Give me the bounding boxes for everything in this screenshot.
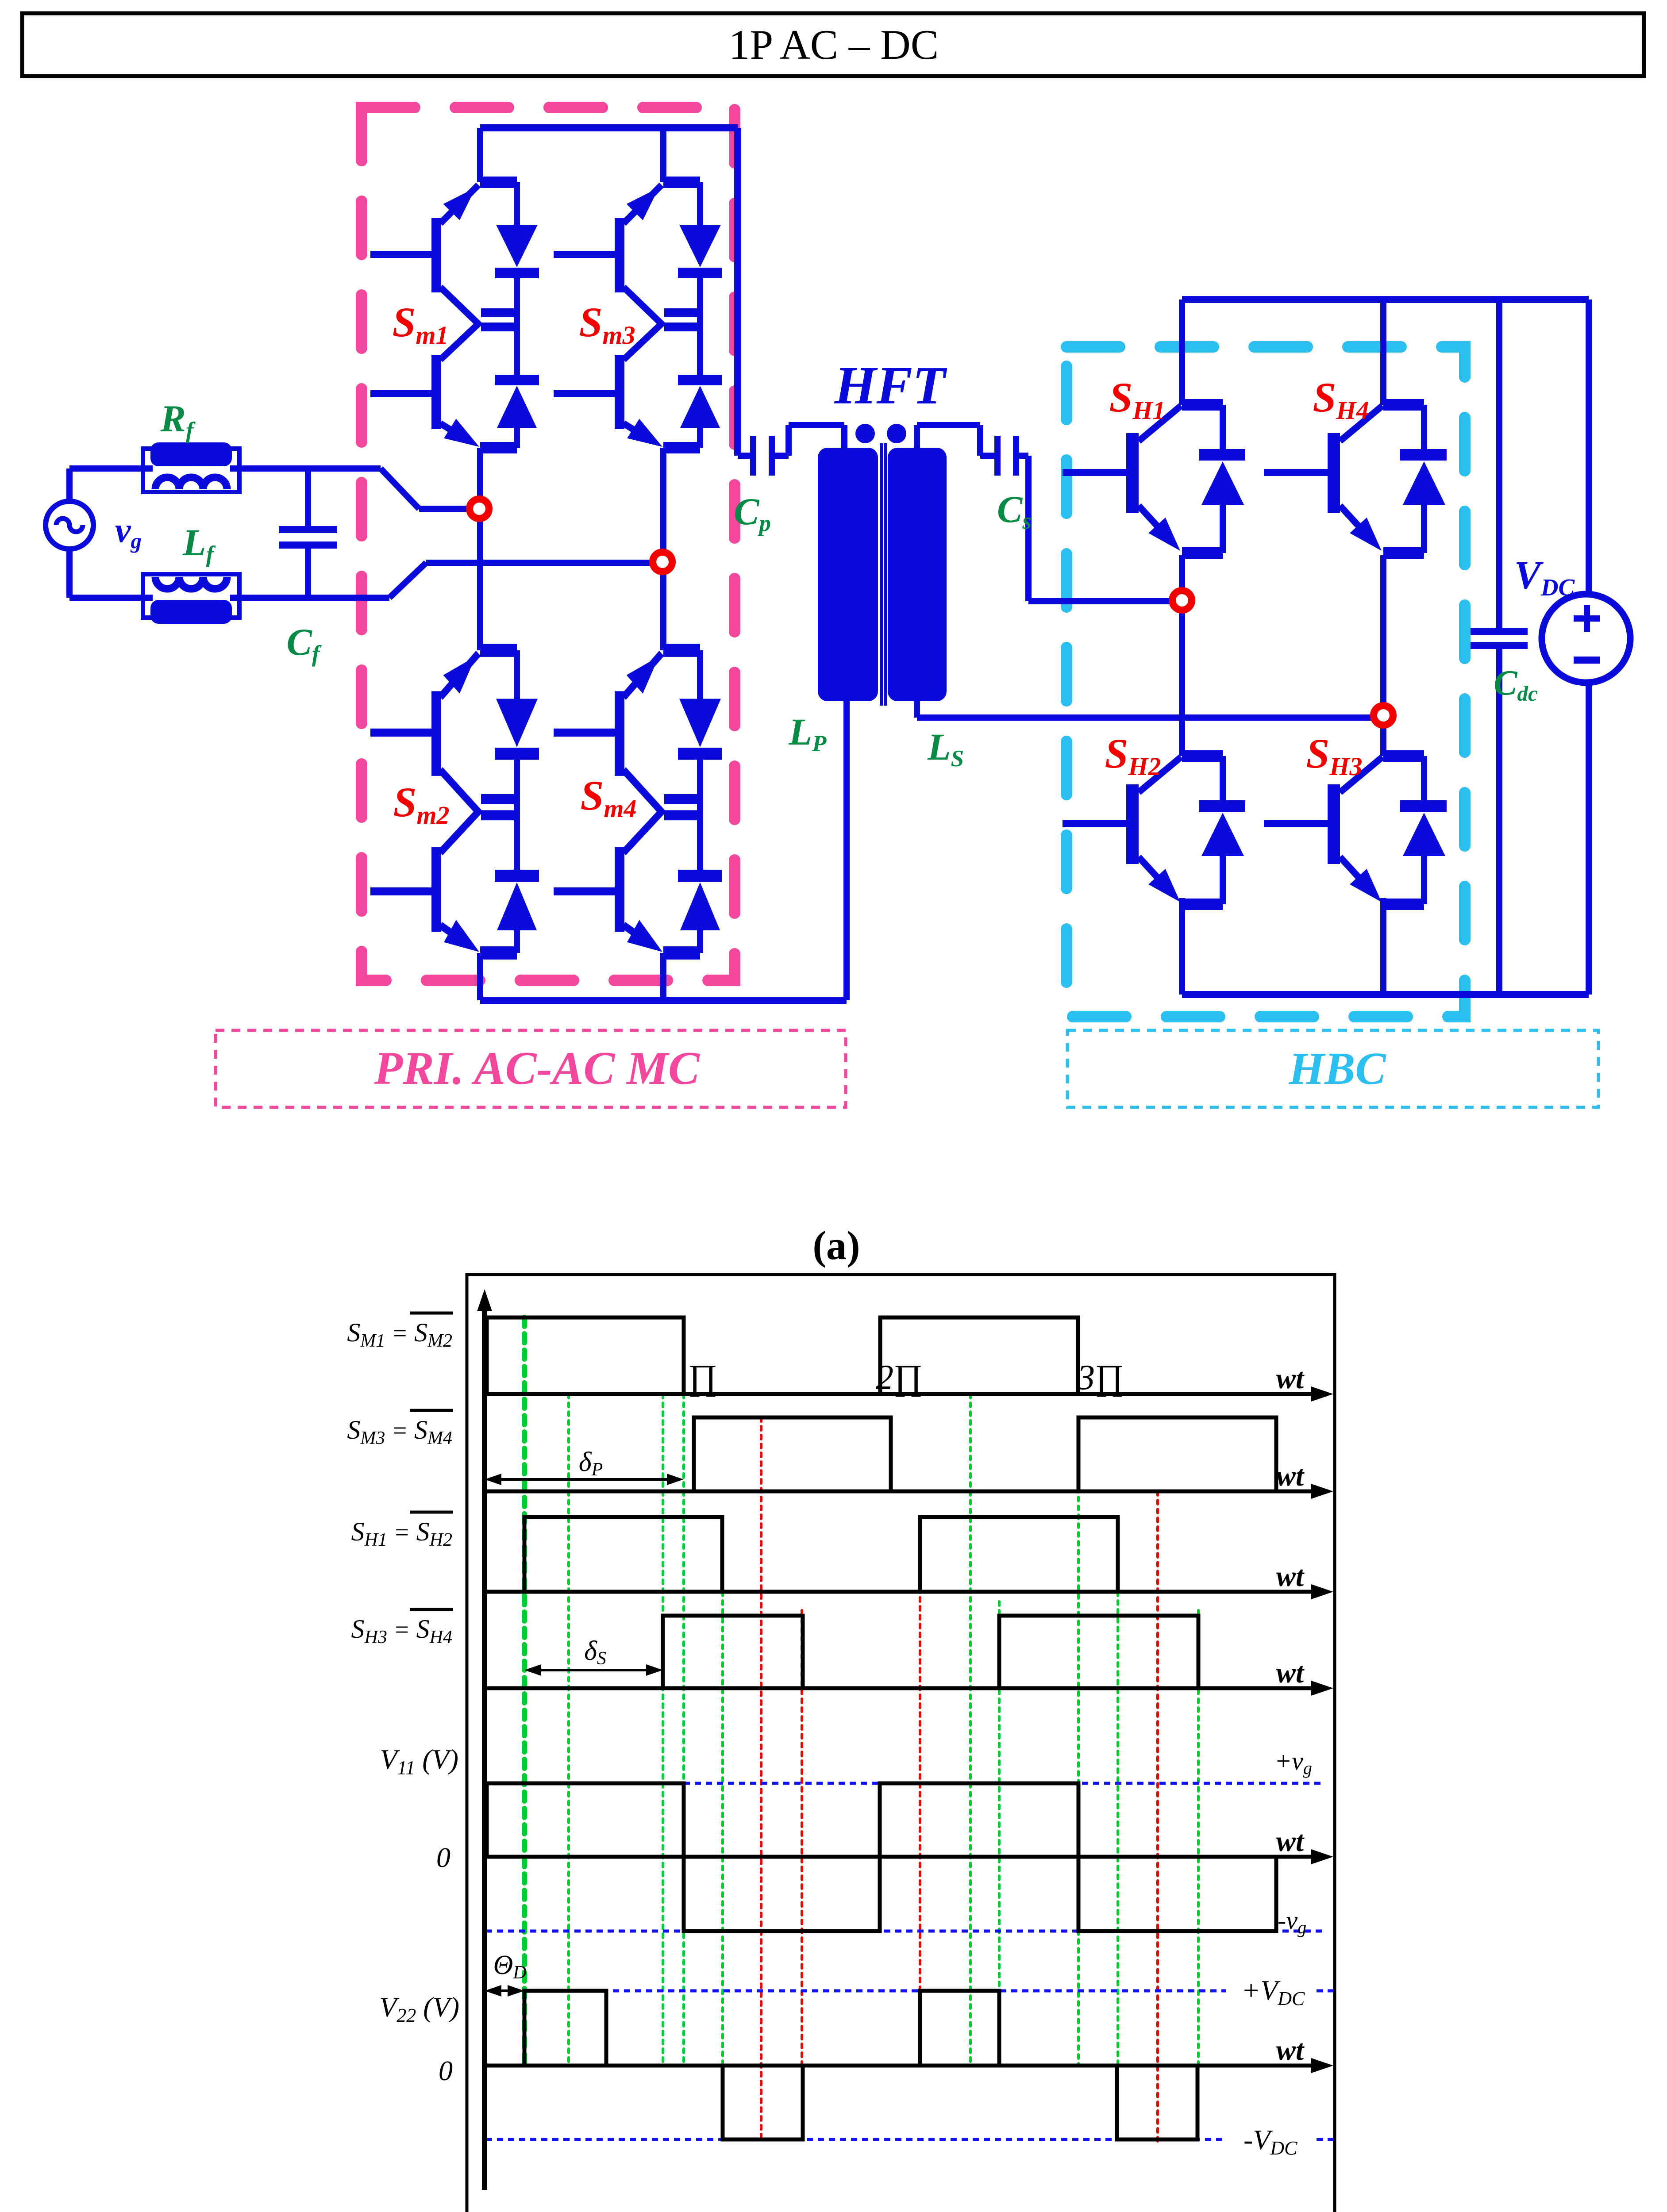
svg-text:vg: vg	[115, 511, 142, 553]
svg-text:+vg: +vg	[1274, 1747, 1312, 1778]
svg-text:SH3: SH3	[1306, 730, 1363, 781]
svg-text:+VDC: +VDC	[1241, 1974, 1305, 2009]
svg-text:Cdc: Cdc	[1494, 664, 1538, 706]
svg-text:SH3 = SH4: SH3 = SH4	[351, 1614, 452, 1647]
svg-text:2∏: 2∏	[876, 1358, 923, 1397]
svg-text:HFT: HFT	[834, 356, 947, 415]
svg-text:Sm1: Sm1	[393, 299, 449, 349]
svg-text:-VDC: -VDC	[1244, 2124, 1297, 2159]
svg-text:δP: δP	[579, 1447, 603, 1480]
svg-text:3∏: 3∏	[1077, 1358, 1124, 1397]
svg-text:SH4: SH4	[1313, 374, 1369, 425]
svg-text:SM3 = SM4: SM3 = SM4	[347, 1415, 452, 1448]
svg-text:(a): (a)	[812, 1223, 860, 1268]
svg-text:SH2: SH2	[1105, 730, 1161, 781]
svg-text:ΘD: ΘD	[493, 1950, 526, 1983]
svg-text:wt: wt	[1276, 1560, 1305, 1593]
svg-text:V11 (V): V11 (V)	[380, 1743, 458, 1778]
svg-text:wt: wt	[1276, 1460, 1305, 1492]
svg-text:wt: wt	[1276, 1825, 1305, 1858]
svg-text:LP: LP	[789, 710, 827, 757]
svg-text:SM1 = SM2: SM1 = SM2	[347, 1318, 452, 1351]
svg-text:1P AC – DC: 1P AC – DC	[729, 21, 939, 68]
svg-text:0: 0	[436, 1842, 450, 1873]
svg-text:Cf: Cf	[286, 621, 322, 667]
svg-text:Rf: Rf	[160, 397, 196, 443]
svg-text:wt: wt	[1276, 2034, 1305, 2066]
svg-text:SH1: SH1	[1109, 374, 1166, 425]
svg-text:Sm3: Sm3	[579, 299, 635, 349]
svg-text:SH1 = SH2: SH1 = SH2	[351, 1517, 452, 1550]
svg-text:δS: δS	[584, 1636, 606, 1669]
svg-text:0: 0	[439, 2055, 453, 2086]
svg-text:PRI. AC-AC MC: PRI. AC-AC MC	[373, 1042, 700, 1094]
svg-text:-vg: -vg	[1278, 1906, 1306, 1937]
svg-text:wt: wt	[1276, 1363, 1305, 1395]
svg-text:wt: wt	[1276, 1657, 1305, 1689]
svg-text:Lf: Lf	[182, 521, 216, 567]
svg-text:LS: LS	[927, 726, 964, 772]
svg-text:∏: ∏	[688, 1358, 717, 1397]
svg-text:V22 (V): V22 (V)	[379, 1991, 459, 2026]
svg-text:HBC: HBC	[1288, 1043, 1386, 1094]
svg-text:VDC: VDC	[1514, 553, 1575, 601]
svg-text:Sm2: Sm2	[393, 779, 450, 829]
svg-text:Cp: Cp	[734, 490, 771, 536]
